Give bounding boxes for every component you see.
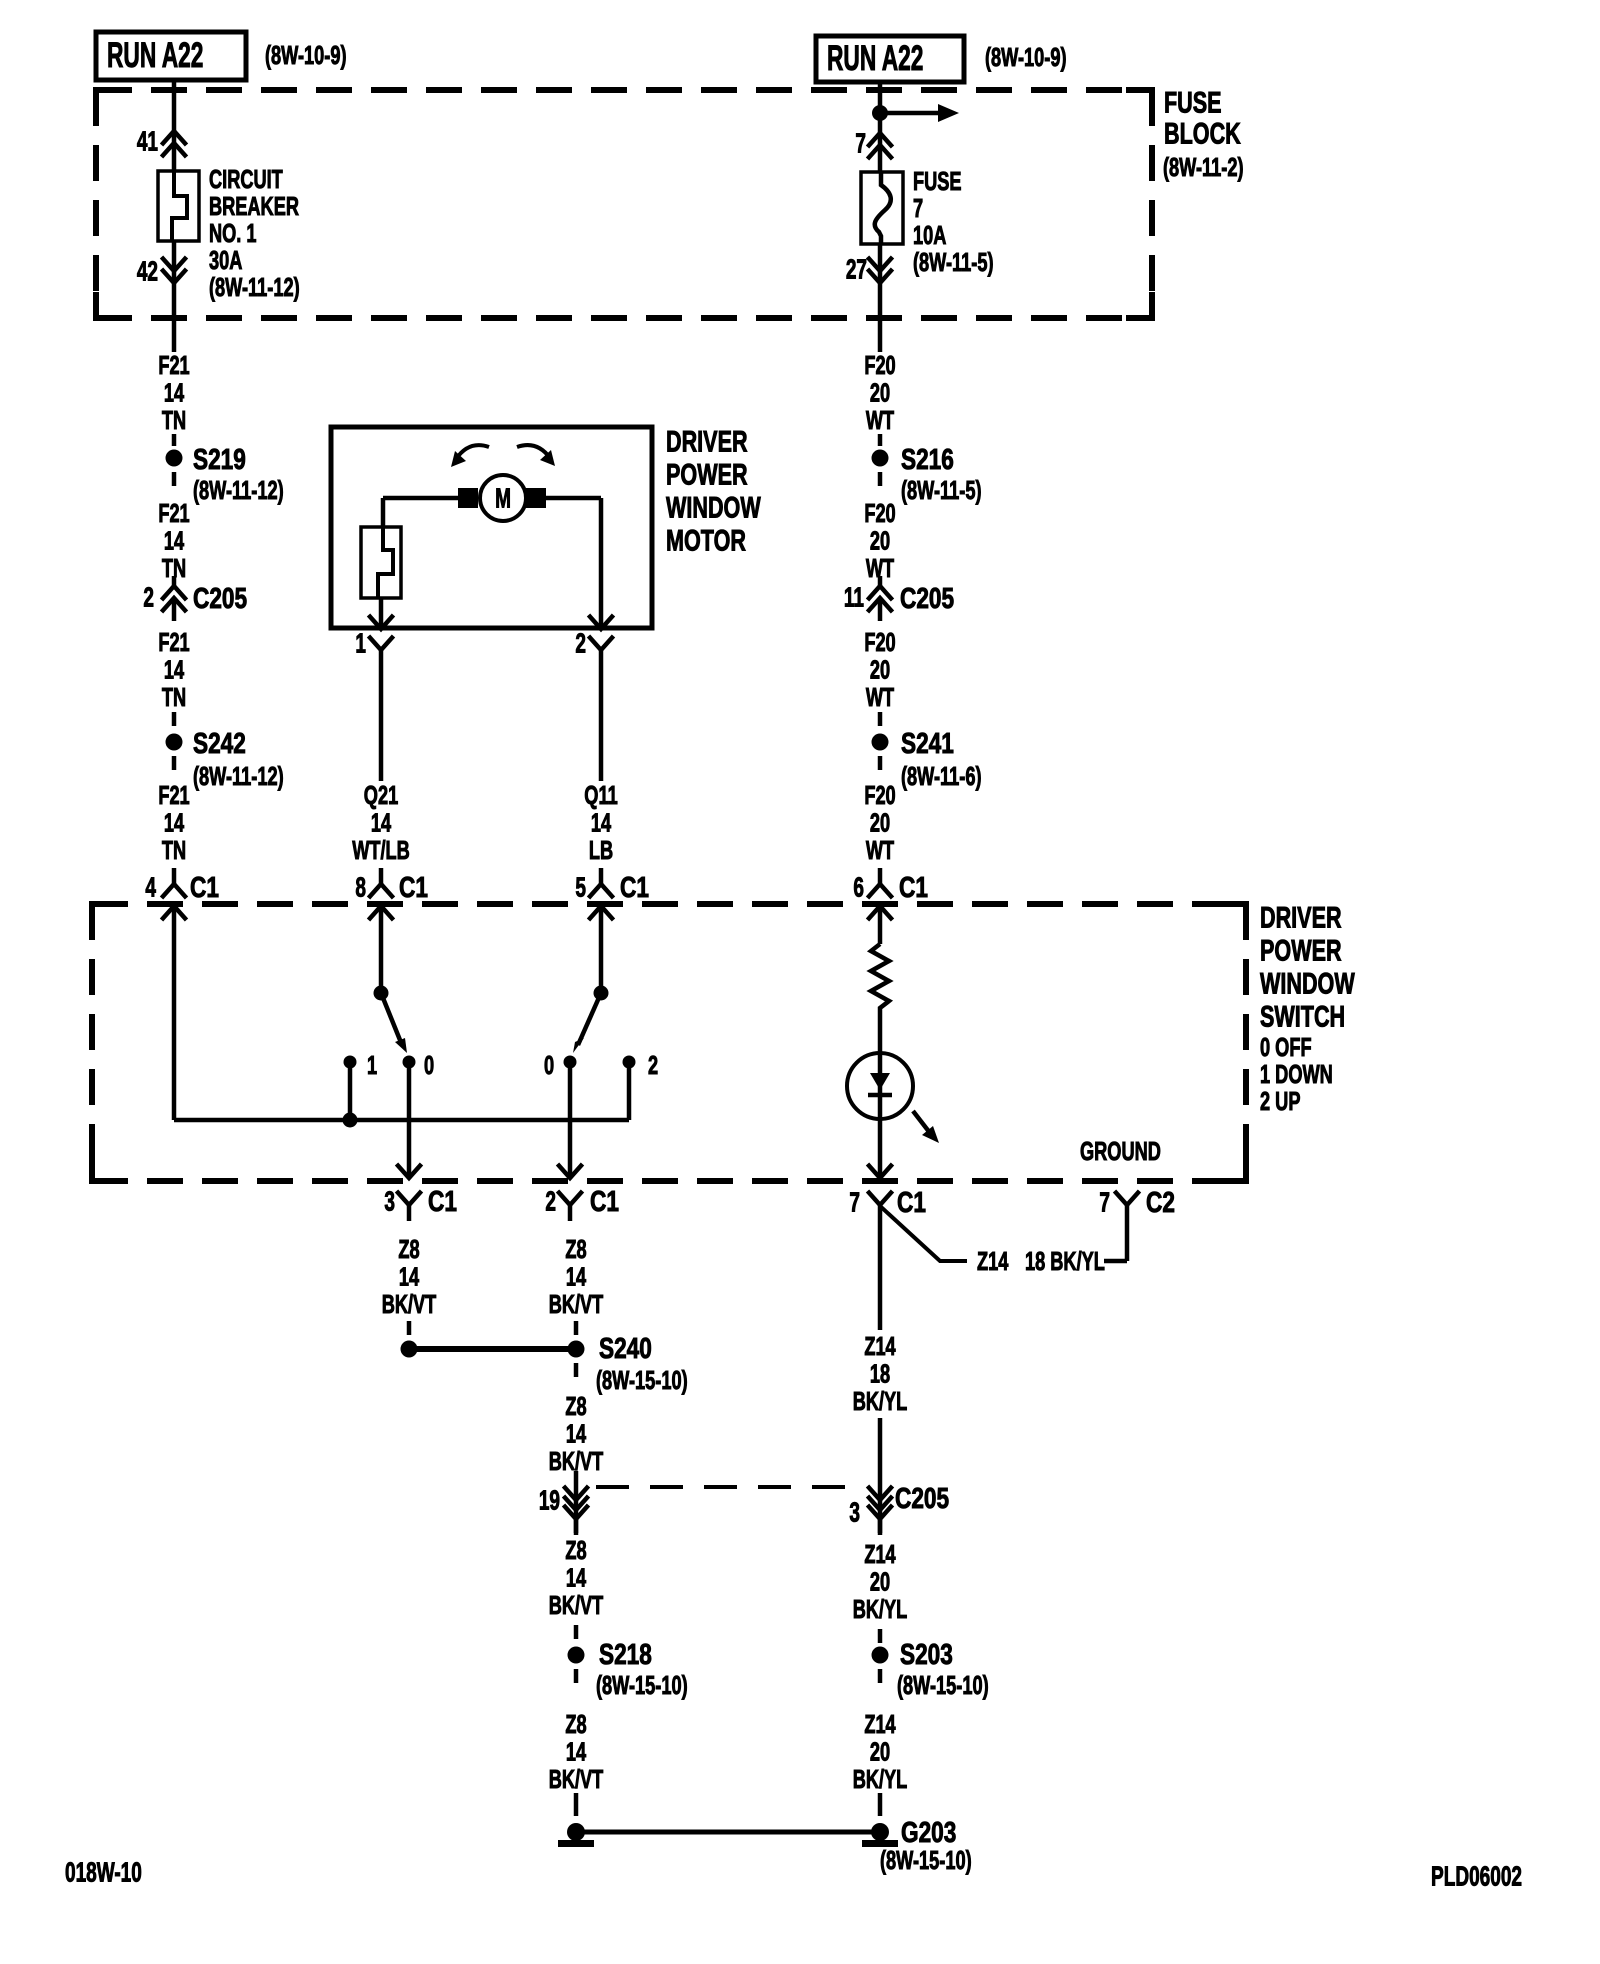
svg-text:S218: S218 [599,1637,652,1670]
svg-text:TN: TN [162,406,186,435]
svg-text:WT: WT [866,836,895,865]
svg-text:BK/VT: BK/VT [549,1290,604,1319]
svg-text:20: 20 [870,655,890,684]
svg-text:4: 4 [145,872,156,904]
svg-text:(8W-15-10): (8W-15-10) [596,1671,688,1700]
svg-text:7: 7 [855,128,866,160]
svg-text:20: 20 [870,1567,890,1596]
svg-text:2: 2 [575,628,586,660]
svg-text:FUSE: FUSE [1164,85,1222,119]
svg-text:WT: WT [866,683,895,712]
svg-text:MOTOR: MOTOR [666,523,746,557]
svg-text:0: 0 [424,1051,434,1080]
svg-text:G203: G203 [901,1815,956,1848]
svg-text:5: 5 [575,872,586,904]
svg-text:C205: C205 [900,581,954,614]
svg-text:Z14: Z14 [864,1332,896,1361]
svg-text:14: 14 [566,1262,587,1291]
svg-text:POWER: POWER [1260,933,1342,967]
svg-text:6: 6 [853,872,864,904]
svg-text:20: 20 [870,808,890,837]
svg-text:NO. 1: NO. 1 [209,219,257,248]
svg-text:10A: 10A [913,221,946,250]
svg-text:14: 14 [399,1262,420,1291]
svg-text:8: 8 [355,872,366,904]
svg-text:TN: TN [162,836,186,865]
svg-text:BLOCK: BLOCK [1164,116,1241,150]
svg-text:F21: F21 [158,351,189,380]
svg-text:C2: C2 [1146,1185,1175,1218]
svg-text:S242: S242 [193,726,246,759]
svg-text:1: 1 [355,628,366,660]
svg-text:C1: C1 [428,1184,457,1217]
svg-text:SWITCH: SWITCH [1260,999,1345,1033]
svg-text:3: 3 [384,1186,395,1218]
svg-text:C205: C205 [895,1481,949,1514]
svg-text:S216: S216 [901,442,954,475]
svg-text:CIRCUIT: CIRCUIT [209,165,283,194]
svg-text:(8W-15-10): (8W-15-10) [897,1671,989,1700]
svg-text:14: 14 [566,1563,587,1592]
svg-text:S203: S203 [900,1637,953,1670]
svg-text:14: 14 [566,1737,587,1766]
svg-text:Z8: Z8 [565,1235,586,1264]
svg-text:(8W-11-2): (8W-11-2) [1163,153,1244,182]
svg-text:GROUND: GROUND [1080,1137,1161,1166]
svg-text:7: 7 [1099,1187,1110,1219]
svg-text:30A: 30A [209,246,242,275]
svg-text:C1: C1 [590,1184,619,1217]
svg-text:C1: C1 [620,870,649,903]
svg-text:Z14: Z14 [977,1247,1009,1276]
svg-text:C1: C1 [399,870,428,903]
svg-text:14: 14 [164,655,185,684]
svg-text:Q21: Q21 [364,781,398,810]
svg-text:RUN A22: RUN A22 [827,39,923,78]
svg-text:14: 14 [591,808,612,837]
svg-text:(8W-10-9): (8W-10-9) [265,41,347,70]
svg-text:Q11: Q11 [584,781,617,810]
svg-text:2: 2 [648,1051,658,1080]
svg-text:7: 7 [849,1187,860,1219]
svg-text:(8W-11-5): (8W-11-5) [901,476,982,505]
svg-text:11: 11 [844,582,864,614]
svg-text:Z14: Z14 [864,1540,896,1569]
svg-text:DRIVER: DRIVER [1260,900,1342,934]
svg-text:27: 27 [846,254,867,286]
svg-text:BK/VT: BK/VT [549,1591,604,1620]
svg-text:3: 3 [849,1497,860,1529]
svg-text:C1: C1 [897,1185,926,1218]
svg-text:F21: F21 [158,781,189,810]
svg-text:19: 19 [539,1485,560,1517]
svg-text:BK/YL: BK/YL [853,1595,908,1624]
svg-text:F21: F21 [158,628,189,657]
svg-text:2 UP: 2 UP [1260,1087,1300,1116]
svg-text:20: 20 [870,378,890,407]
svg-text:7: 7 [913,194,923,223]
svg-text:WINDOW: WINDOW [1260,966,1355,1000]
svg-text:S219: S219 [193,442,246,475]
svg-text:14: 14 [164,526,185,555]
svg-text:(8W-15-10): (8W-15-10) [880,1846,972,1875]
svg-text:WT/LB: WT/LB [352,836,410,865]
svg-text:(8W-15-10): (8W-15-10) [596,1366,688,1395]
svg-text:14: 14 [164,378,185,407]
svg-text:(8W-10-9): (8W-10-9) [985,43,1067,72]
svg-text:WINDOW: WINDOW [666,490,761,524]
svg-text:0 OFF: 0 OFF [1260,1033,1312,1062]
svg-text:1: 1 [367,1051,377,1080]
svg-text:DRIVER: DRIVER [666,424,748,458]
svg-text:FUSE: FUSE [913,167,962,196]
svg-text:C1: C1 [899,870,928,903]
svg-text:(8W-11-5): (8W-11-5) [913,248,994,277]
svg-text:BK/VT: BK/VT [382,1290,437,1319]
svg-text:F20: F20 [864,781,895,810]
svg-text:Z14: Z14 [864,1710,896,1739]
svg-text:14: 14 [164,808,185,837]
svg-text:POWER: POWER [666,457,748,491]
svg-text:BREAKER: BREAKER [209,192,299,221]
svg-text:2: 2 [545,1186,556,1218]
svg-text:(8W-11-12): (8W-11-12) [193,476,284,505]
svg-text:1 DOWN: 1 DOWN [1260,1060,1333,1089]
svg-text:42: 42 [137,256,158,288]
svg-text:S241: S241 [901,726,954,759]
svg-text:PLD06002: PLD06002 [1431,1861,1522,1893]
svg-text:C205: C205 [193,581,247,614]
svg-text:S240: S240 [599,1331,652,1364]
svg-text:2: 2 [143,582,154,614]
svg-text:C1: C1 [190,870,219,903]
svg-text:14: 14 [566,1419,587,1448]
svg-text:18: 18 [870,1359,890,1388]
svg-text:WT: WT [866,406,895,435]
svg-text:F21: F21 [158,499,189,528]
svg-text:Z8: Z8 [398,1235,419,1264]
svg-text:BK/VT: BK/VT [549,1765,604,1794]
svg-text:20: 20 [870,526,890,555]
svg-text:18 BK/YL: 18 BK/YL [1025,1247,1105,1276]
svg-text:BK/YL: BK/YL [853,1387,908,1416]
svg-text:BK/YL: BK/YL [853,1765,908,1794]
svg-text:0: 0 [544,1051,554,1080]
svg-text:F20: F20 [864,499,895,528]
svg-text:Z8: Z8 [565,1392,586,1421]
svg-text:Z8: Z8 [565,1536,586,1565]
svg-text:TN: TN [162,683,186,712]
svg-text:018W-10: 018W-10 [65,1857,142,1889]
svg-text:M: M [495,483,511,515]
svg-text:41: 41 [137,126,158,158]
svg-text:(8W-11-6): (8W-11-6) [901,762,982,791]
svg-text:F20: F20 [864,351,895,380]
svg-text:14: 14 [371,808,392,837]
svg-text:RUN A22: RUN A22 [107,36,203,75]
svg-text:LB: LB [589,836,613,865]
svg-text:(8W-11-12): (8W-11-12) [193,762,284,791]
svg-text:Z8: Z8 [565,1710,586,1739]
svg-text:(8W-11-12): (8W-11-12) [209,273,300,302]
svg-text:20: 20 [870,1737,890,1766]
svg-text:F20: F20 [864,628,895,657]
